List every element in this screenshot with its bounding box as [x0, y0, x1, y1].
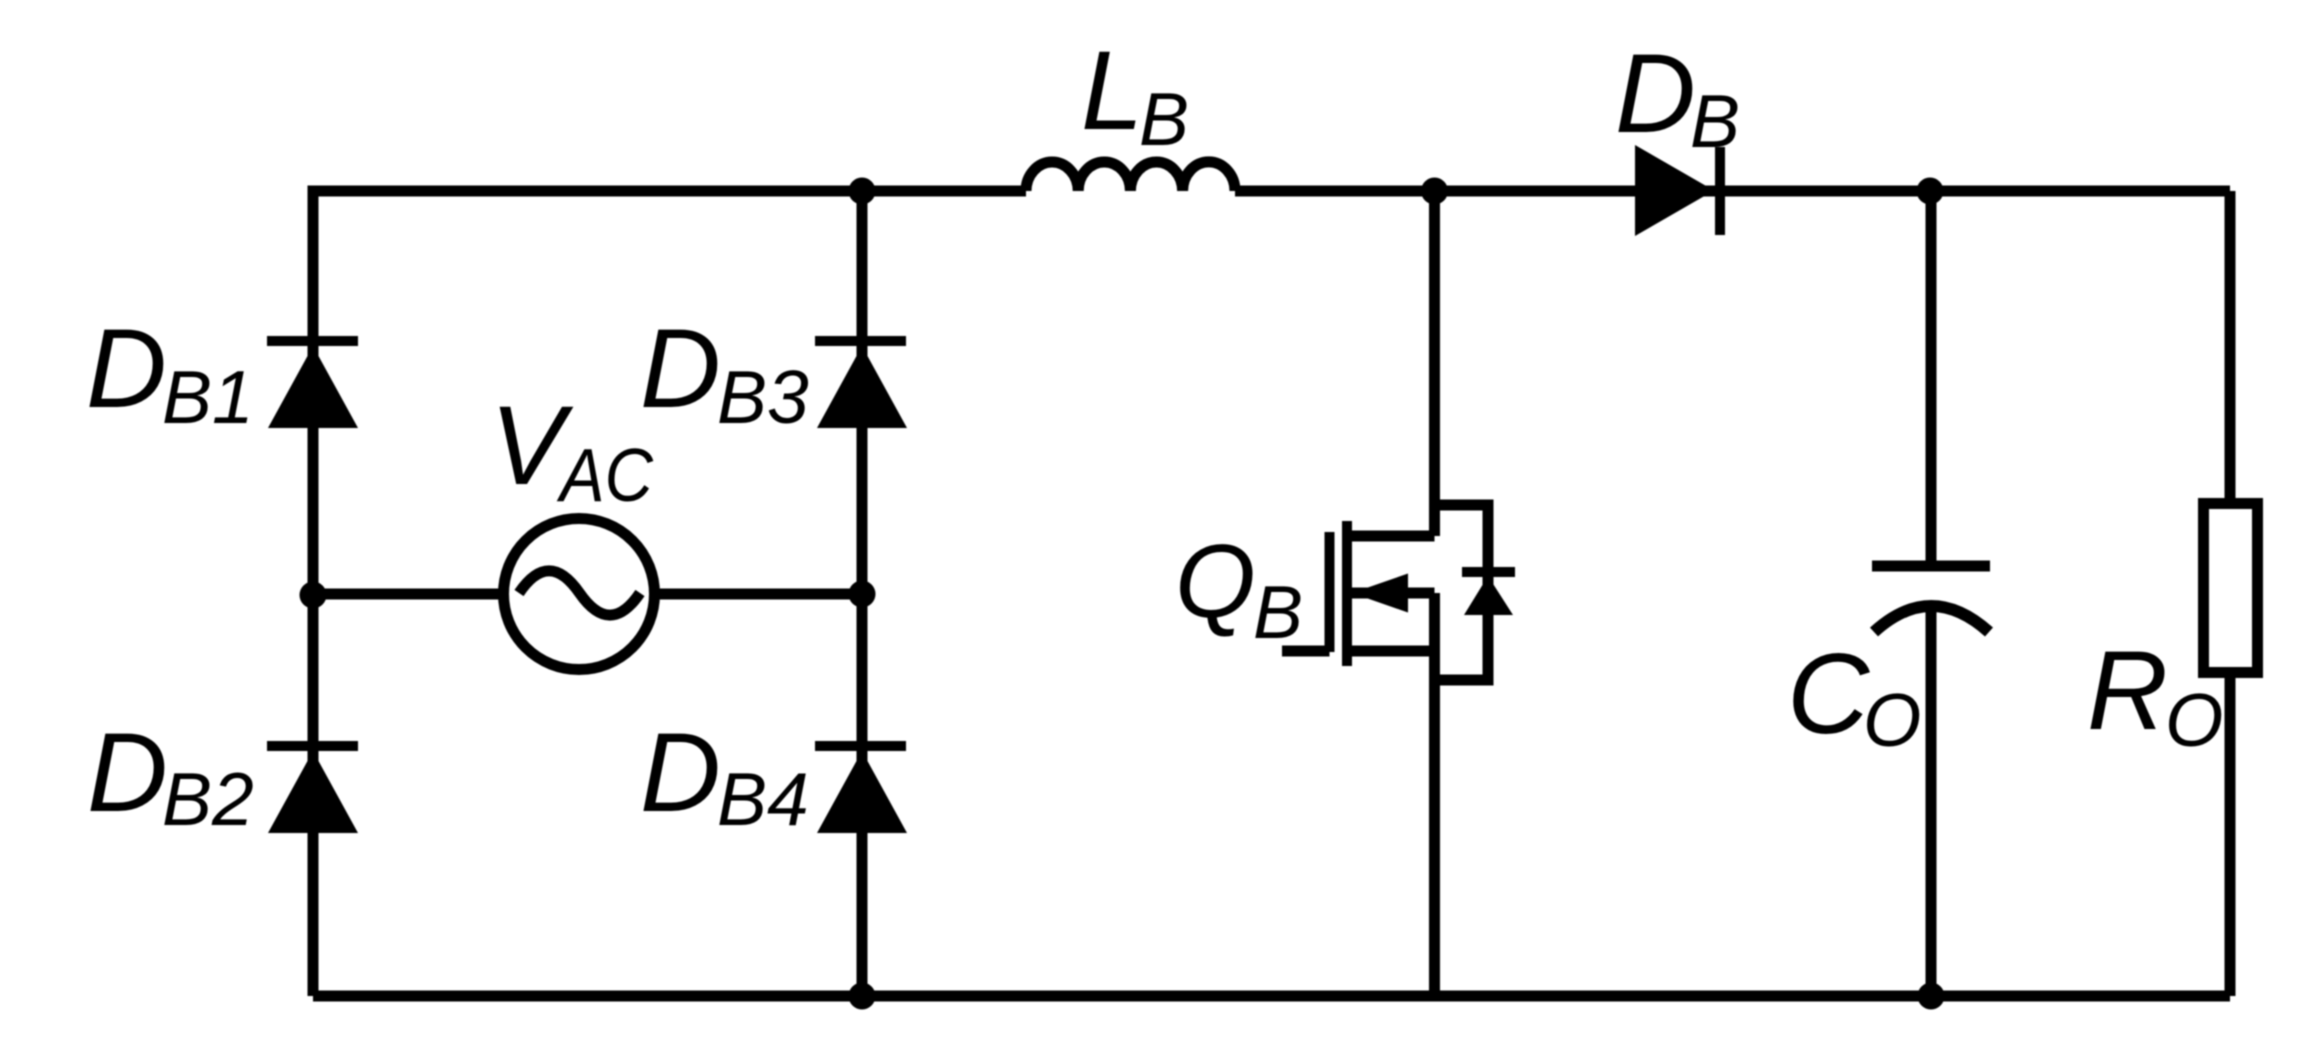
svg-text:R: R	[2087, 628, 2168, 753]
svg-text:O: O	[1863, 678, 1921, 762]
svg-text:B4: B4	[717, 757, 809, 841]
svg-text:B2: B2	[162, 757, 254, 841]
svg-text:D: D	[86, 306, 167, 431]
svg-text:B: B	[1139, 77, 1189, 161]
svg-text:O: O	[2165, 678, 2223, 762]
svg-text:AC: AC	[556, 433, 653, 517]
svg-text:D: D	[87, 710, 168, 835]
svg-text:B3: B3	[717, 355, 809, 439]
svg-text:B: B	[1253, 570, 1303, 654]
svg-text:D: D	[1615, 31, 1696, 156]
svg-text:D: D	[640, 306, 721, 431]
svg-text:C: C	[1787, 631, 1870, 758]
svg-text:B1: B1	[162, 355, 254, 439]
svg-text:L: L	[1081, 28, 1143, 153]
svg-text:B: B	[1690, 79, 1740, 163]
svg-text:D: D	[640, 710, 721, 835]
svg-text:Q: Q	[1175, 524, 1256, 640]
